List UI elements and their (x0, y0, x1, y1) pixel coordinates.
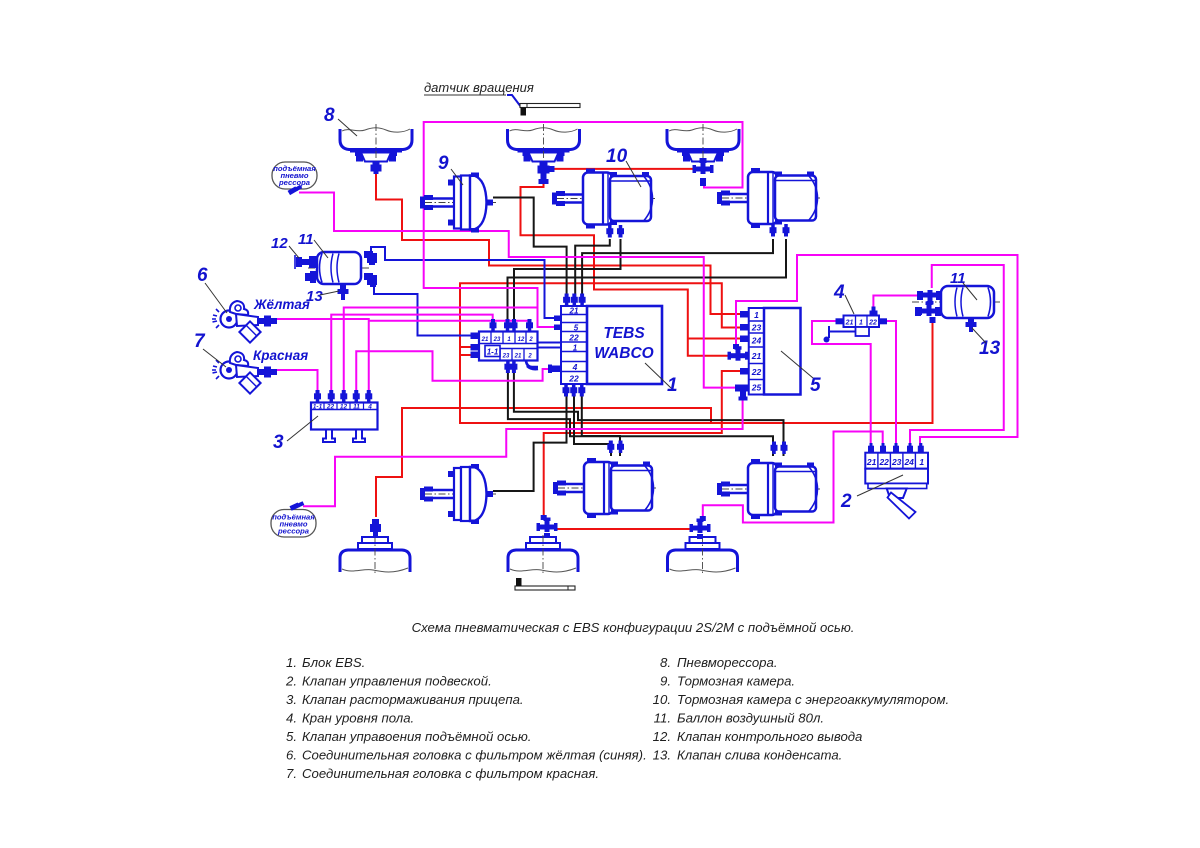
svg-text:11: 11 (353, 404, 360, 411)
svg-text:рессора: рессора (277, 527, 309, 536)
svg-text:1-1: 1-1 (487, 348, 499, 357)
wire: black TEBS bottom 2 to chamber-10bM left (574, 393, 611, 456)
label 9 (438, 153, 463, 185)
svg-text:Пневморессора.: Пневморессора. (677, 655, 778, 670)
upper right elbow of tank (364, 251, 377, 265)
control port valve 12 on tank left (295, 255, 317, 269)
label 3 (273, 416, 318, 453)
svg-text:Клапан контрольного вывода: Клапан контрольного вывода (677, 729, 862, 744)
svg-text:22: 22 (751, 367, 762, 377)
svg-text:23: 23 (493, 337, 501, 343)
svg-text:24: 24 (751, 336, 762, 346)
suspension control valve 2 (865, 443, 928, 519)
svg-text:21: 21 (481, 337, 489, 343)
brake chamber 9a top (420, 173, 496, 233)
wire: black TEBS bottom 1 to chamber-9b (493, 393, 567, 491)
svg-text:10.: 10. (653, 692, 671, 707)
svg-text:22: 22 (568, 333, 579, 343)
svg-text:4: 4 (367, 404, 372, 411)
svg-text:12: 12 (518, 337, 525, 343)
svg-text:12: 12 (340, 404, 348, 411)
svg-text:Соединительная головка с фильт: Соединительная головка с фильтром жёлтая… (302, 748, 647, 763)
svg-text:1: 1 (859, 320, 863, 327)
wire: black manifold bottom to chamber-10bR right (514, 371, 784, 456)
ports of chamber 10a (606, 225, 624, 238)
wire: magenta valve-2 port 22 to bottom-right spring T (703, 432, 883, 523)
svg-text:2: 2 (840, 491, 852, 512)
svg-text:10: 10 (606, 146, 628, 167)
svg-text:3: 3 (273, 432, 284, 453)
legend right column (653, 655, 950, 763)
svg-text:2.: 2. (285, 674, 297, 689)
svg-text:Клапан управоения подъёмной ос: Клапан управоения подъёмной осью. (302, 729, 531, 744)
brake chamber 10bM bottom-middle (553, 458, 656, 518)
air spring top-right (667, 124, 739, 164)
svg-text:2: 2 (527, 354, 532, 360)
wire: black chamber-10aR left port to TEBS top 3 (582, 239, 773, 300)
wire: red branch to manifold port a (460, 346, 478, 348)
svg-text:4: 4 (572, 362, 578, 372)
svg-text:9.: 9. (660, 674, 671, 689)
label 6 (197, 265, 227, 313)
ports of chamber 10bM (607, 441, 624, 454)
svg-text:Тормозная камера с энергоаккум: Тормозная камера с энергоаккумулятором. (677, 692, 949, 707)
svg-text:21: 21 (751, 351, 762, 361)
brake chamber 10aR top-right (717, 168, 820, 228)
brake chamber 9b bottom (420, 464, 496, 524)
svg-text:3.: 3. (286, 692, 297, 707)
svg-text:Клапан растормаживания прицепа: Клапан растормаживания прицепа. (302, 692, 524, 707)
svg-text:11: 11 (298, 231, 314, 248)
svg-text:23: 23 (891, 457, 902, 467)
lift oval label top (272, 162, 317, 195)
svg-text:1: 1 (919, 457, 924, 467)
coupling head 6 yellow (212, 301, 277, 343)
svg-text:11.: 11. (654, 711, 671, 726)
svg-text:1: 1 (573, 344, 578, 353)
svg-text:4: 4 (833, 282, 845, 303)
svg-text:Кран уровня пола.: Кран уровня пола. (302, 711, 414, 726)
wire: blue tank top elbow to TEBS row 2 (371, 247, 556, 318)
valve fitting under middle air spring (538, 161, 555, 184)
air tank 11 right (912, 286, 1000, 318)
wire: black chamber-10a right port to manifold top (514, 239, 621, 323)
wire: magenta valve-3 to manifold top left (331, 315, 492, 396)
label 7 (194, 331, 226, 367)
label 12 (271, 235, 299, 258)
coupling head 7 red (212, 352, 277, 394)
sensor manifold 1-1 (471, 319, 539, 373)
svg-text:2: 2 (528, 337, 533, 343)
lower right elbow of tank (364, 273, 377, 287)
top T fitting of right tank (917, 290, 942, 305)
svg-text:6.: 6. (286, 748, 297, 763)
wire: blue sensor leader diagonal (507, 95, 521, 107)
wire: red bottom-center spring T to valve-5 port 22 (544, 371, 740, 516)
svg-text:8.: 8. (660, 655, 671, 670)
svg-text:21: 21 (866, 457, 877, 467)
ports of chamber 10aR (770, 224, 790, 237)
svg-text:22: 22 (878, 457, 889, 467)
wire: magenta valve-3 to TEBS row-5 trunk (344, 308, 538, 397)
wire: magenta big loop spring-3 T to TEBS row 5 (424, 122, 743, 327)
wire: black TEBS bottom 3 to chamber-10bM right (582, 393, 620, 456)
svg-text:1-1: 1-1 (313, 404, 323, 411)
svg-text:Баллон воздушный 80л.: Баллон воздушный 80л. (677, 711, 824, 726)
svg-text:Жёлтая: Жёлтая (253, 297, 310, 312)
svg-text:Клапан управления подвеской.: Клапан управления подвеской. (302, 674, 492, 689)
wire: magenta tank top T to valve-2 port 24 (910, 265, 1004, 452)
wire: blue tank lower elbow to manifold left (374, 284, 478, 336)
T fitting under right air spring (693, 158, 714, 186)
svg-text:13: 13 (979, 338, 1001, 359)
label 8 (324, 105, 357, 136)
svg-text:TEBS: TEBS (603, 325, 645, 342)
label 13 right (972, 328, 1001, 359)
svg-text:12.: 12. (653, 729, 671, 744)
wire: magenta top oval to valve-5 port 25 (299, 193, 736, 388)
svg-text:7.: 7. (286, 766, 297, 781)
label 1 (645, 363, 678, 396)
svg-text:6: 6 (197, 265, 208, 286)
svg-text:25: 25 (751, 383, 762, 393)
svg-text:7: 7 (194, 331, 206, 352)
svg-text:22: 22 (568, 374, 579, 384)
svg-text:21: 21 (569, 307, 579, 316)
lower left fitting of tank (305, 271, 316, 283)
svg-text:WABCO: WABCO (594, 345, 653, 362)
trailer release valve 3 (311, 390, 378, 442)
T fitting above bottom-right spring (690, 516, 711, 539)
svg-text:22: 22 (868, 320, 877, 327)
svg-text:21: 21 (514, 354, 522, 360)
svg-text:22: 22 (326, 404, 335, 411)
svg-text:9: 9 (438, 153, 449, 174)
wire: magenta valve-3 to TEBS port 4 (356, 351, 556, 396)
wire: magenta valve-5 T21 to valve-2 port 1 (736, 255, 1018, 452)
wire: black manifold bottom to chamber-10bR left (508, 371, 773, 456)
wire: magenta red head to valve-3 port (272, 370, 318, 396)
wire: red branch to manifold port b (460, 354, 478, 356)
lift axle control valve 5 (728, 308, 801, 401)
label 11 right (950, 270, 977, 300)
svg-text:23: 23 (502, 354, 510, 360)
brake chamber 10bR bottom-right (717, 459, 820, 519)
drain valve 13 under left tank (338, 284, 349, 300)
svg-text:рессора: рессора (278, 178, 310, 187)
air tank 11 left (308, 252, 370, 284)
air spring 8 top-left (340, 124, 412, 164)
wire: red supply trunk tank to valve-5 port 23 (460, 283, 933, 423)
label 10 (606, 146, 641, 187)
wire: red spring-2 T to spring-3 T (548, 168, 694, 170)
T fitting above bottom-center spring (537, 515, 558, 538)
wire: red air-spring-8 to valve-5 port 1 (376, 170, 740, 314)
svg-text:11: 11 (950, 270, 966, 287)
bottom air spring left (340, 535, 410, 575)
label 2 (840, 475, 903, 512)
svg-text:Красная: Красная (253, 348, 308, 363)
fitting under air spring 8 (371, 161, 382, 174)
svg-text:Схема пневматическая с EBS ко: Схема пневматическая с EBS конфигурации … (412, 620, 855, 635)
svg-text:Блок EBS.: Блок EBS. (302, 655, 365, 670)
svg-text:датчик вращения: датчик вращения (424, 80, 534, 95)
wire: magenta valve-4 right to valve-2 port 23 (886, 321, 896, 452)
wire: red branch to valve-5 port 24 (688, 338, 740, 340)
svg-text:13.: 13. (653, 748, 671, 763)
svg-text:1: 1 (754, 310, 759, 320)
svg-text:4.: 4. (286, 711, 297, 726)
label 4 (833, 282, 854, 314)
svg-text:5: 5 (810, 375, 821, 396)
svg-text:8: 8 (324, 105, 335, 126)
svg-text:Соединительная головка с фильт: Соединительная головка с фильтром красна… (302, 766, 599, 781)
lift oval label bottom (271, 500, 316, 537)
svg-text:5.: 5. (286, 729, 297, 744)
svg-text:12: 12 (271, 235, 288, 252)
label 13 left (306, 288, 339, 305)
svg-text:23: 23 (751, 323, 762, 333)
air spring top-middle (508, 124, 580, 164)
wire: magenta branch to manifold top right (369, 321, 529, 328)
wire: red bottom center T to right T (556, 528, 692, 530)
wire: black chamber-9a to TEBS top 1 (493, 198, 567, 301)
svg-text:21: 21 (845, 320, 854, 327)
floor level valve 4 (824, 307, 888, 343)
bottom T fitting of right tank (915, 302, 941, 324)
rotation sensor bar top (520, 104, 580, 116)
bottom air spring right (668, 535, 738, 575)
wire: magenta valve-4 left to valve-2 port 21 (812, 321, 871, 452)
wire: blue manifold to TEBS double link (538, 342, 563, 344)
wire: red bottom-left air spring riser (376, 408, 711, 517)
rotation sensor bar bottom (515, 578, 575, 590)
wire: magenta yellow head to valve-3 port (272, 319, 369, 396)
svg-text:1.: 1. (286, 655, 297, 670)
wire: black chamber-10aR right port to manifold top (508, 239, 787, 323)
legend left column (285, 655, 647, 781)
wire: magenta tank bottom T to valve-4 top (873, 296, 918, 313)
svg-text:Тормозная камера.: Тормозная камера. (677, 674, 795, 689)
svg-text:Клапан слива конденсата.: Клапан слива конденсата. (677, 748, 842, 763)
EBS unit 1 TEBS WABCO (548, 294, 662, 397)
brake chamber 10a top-left (with energy accumulator) (552, 169, 655, 229)
ports of chamber 10bR (771, 442, 788, 455)
wire: magenta valve-5 port 25 to bottom oval (303, 396, 743, 506)
drain valve 13 under right tank (966, 318, 977, 332)
bottom air spring center (508, 535, 578, 575)
fitting above bottom-left spring (370, 519, 381, 538)
svg-text:5: 5 (574, 324, 579, 333)
label 11 left (298, 231, 328, 258)
label 5 (781, 351, 821, 396)
wire: black chamber-10a left port to TEBS top 2 (575, 239, 610, 300)
svg-text:24: 24 (903, 457, 914, 467)
wire: red spring-2 valve to valve-5 port 21 (521, 184, 732, 356)
